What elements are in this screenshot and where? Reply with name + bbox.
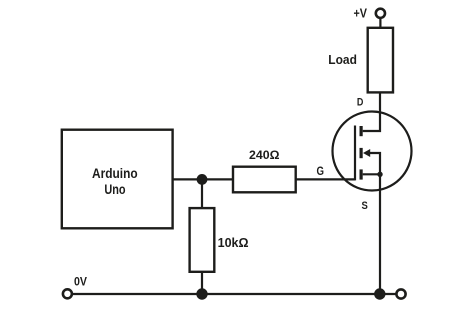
resistor 10kΩ bbox=[190, 208, 215, 272]
svg-text:D: D bbox=[357, 97, 364, 109]
wire: junction down to 10k resistor bbox=[201, 179, 203, 208]
svg-text:G: G bbox=[317, 164, 325, 178]
transistor Q1 body-source junction dot bbox=[377, 172, 382, 177]
wire: Arduino output to gate resistor bbox=[173, 178, 233, 180]
junction: 10k resistor to rail bbox=[196, 288, 207, 299]
svg-text:240Ω: 240Ω bbox=[249, 148, 280, 162]
wire: source down to rail bbox=[379, 174, 381, 294]
transistor Q1 body arrow bbox=[363, 149, 380, 174]
svg-text:Uno: Uno bbox=[104, 181, 125, 197]
svg-text:10kΩ: 10kΩ bbox=[218, 236, 249, 250]
terminal right (open circle) bbox=[396, 289, 405, 298]
wire: bottom 0V rail bbox=[72, 293, 396, 295]
resistor Load bbox=[368, 28, 393, 93]
terminal +V (open circle) bbox=[376, 9, 385, 18]
transistor Q1 channel segment drain bbox=[360, 126, 363, 136]
wire: 240 resistor to gate bbox=[296, 178, 355, 180]
wire: +V terminal to load bbox=[379, 18, 381, 28]
svg-text:0V: 0V bbox=[74, 277, 87, 289]
component box Arduino Uno bbox=[62, 130, 173, 229]
label Arduino Uno bbox=[92, 165, 138, 197]
junction: source to rail bbox=[374, 288, 385, 299]
terminal 0V (open circle) bbox=[63, 289, 72, 298]
svg-text:Load: Load bbox=[328, 52, 357, 67]
junction node at Arduino output bbox=[197, 174, 208, 185]
transistor Q1 channel segment source bbox=[360, 169, 363, 179]
svg-text:+V: +V bbox=[354, 6, 368, 21]
transistor Q1 channel segment body bbox=[360, 148, 363, 158]
transistor Q1 drain connection bbox=[363, 92, 380, 131]
svg-text:S: S bbox=[362, 200, 368, 212]
transistor Q1 source connection bbox=[363, 173, 380, 175]
wire: 10k resistor to rail bbox=[201, 272, 203, 294]
svg-text:Arduino: Arduino bbox=[92, 165, 138, 181]
transistor Q1 gate electrode bar bbox=[354, 126, 356, 181]
resistor 240Ω bbox=[233, 167, 296, 193]
transistor Q1 MOSFET body circle bbox=[333, 112, 412, 191]
